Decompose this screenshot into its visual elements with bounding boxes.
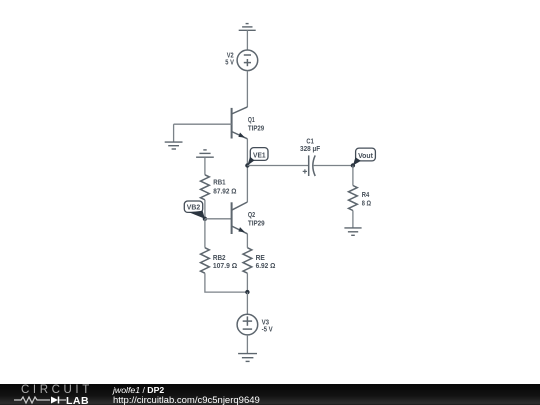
svg-text:107.9 Ω: 107.9 Ω	[213, 261, 237, 270]
wire (RB2 down and right to bottom junction)	[205, 273, 248, 292]
transistor Q2	[232, 202, 248, 234]
wire (ground to RB1)	[204, 157, 206, 175]
svg-text:VE1: VE1	[253, 150, 266, 159]
footer title jwolfe1 / DP2	[113, 385, 164, 395]
junction (bottom, above V3)	[245, 290, 249, 294]
wire (RB1 to VB2 node)	[204, 200, 206, 219]
wire (Q2 collector up to VE1 junction)	[246, 166, 248, 203]
junction Vout	[351, 163, 355, 167]
ground (below R4)	[344, 228, 361, 235]
ground (above RB1)	[196, 150, 214, 157]
CircuitLab logo text CIRCUIT	[21, 384, 93, 396]
svg-text:RB1: RB1	[213, 178, 225, 187]
wire (RE to bottom junction)	[246, 273, 248, 292]
transistor Q1	[232, 107, 248, 139]
svg-text:87.92 Ω: 87.92 Ω	[213, 187, 236, 196]
wire (Q1 base to left)	[174, 123, 232, 125]
resistor RE	[243, 248, 252, 274]
wire (junction to V3)	[246, 292, 248, 314]
node VE1 label	[247, 148, 268, 166]
wire (Q2 emitter down to RE)	[246, 234, 248, 248]
wire (R4 to ground)	[352, 211, 354, 228]
junction VB2	[203, 217, 207, 221]
wire (down to left ground)	[173, 124, 175, 142]
resistor RB1	[201, 175, 210, 200]
svg-text:5 V: 5 V	[225, 58, 234, 67]
voltage source V3	[237, 314, 258, 335]
svg-text:TIP29: TIP29	[248, 124, 264, 133]
footer url	[113, 395, 260, 405]
wire (VB2 junction down to RB2)	[204, 219, 206, 248]
svg-text:TIP29: TIP29	[248, 219, 265, 228]
wire (VB2 node to Q2 base)	[205, 218, 232, 220]
wire (C1 to Vout junction)	[313, 165, 353, 167]
voltage source V2	[237, 50, 258, 71]
node VB2 label	[184, 201, 205, 219]
junction VE1	[245, 163, 249, 167]
svg-text:LAB: LAB	[66, 395, 89, 405]
svg-text:328 µF: 328 µF	[300, 144, 321, 153]
CircuitLab logo resistor-diode glyph and LAB	[14, 395, 99, 405]
wire (VE1 junction to C1)	[247, 165, 308, 167]
wire (V2 to Q1 collector)	[246, 71, 248, 107]
ground (Q1 base)	[165, 142, 183, 149]
svg-text:VB2: VB2	[187, 203, 200, 212]
wire (Vout junction down to R4)	[352, 166, 354, 186]
ground (top, above V2)	[239, 24, 256, 31]
footer bar	[0, 384, 540, 405]
svg-text:8 Ω: 8 Ω	[362, 199, 371, 208]
capacitor C1	[303, 155, 316, 176]
wire (V3 to bottom ground)	[246, 335, 248, 354]
svg-text:Q2: Q2	[248, 210, 255, 219]
wire (top ground to V2)	[246, 30, 248, 50]
ground (below V3)	[238, 354, 257, 362]
resistor R4	[349, 186, 358, 211]
svg-text:Vout: Vout	[358, 151, 373, 160]
node Vout label	[353, 148, 376, 165]
resistor RB2	[201, 248, 210, 274]
svg-text:6.92 Ω: 6.92 Ω	[256, 261, 276, 270]
svg-text:-5 V: -5 V	[262, 325, 273, 334]
wire (Q1 emitter down to VE1 junction)	[246, 139, 248, 166]
